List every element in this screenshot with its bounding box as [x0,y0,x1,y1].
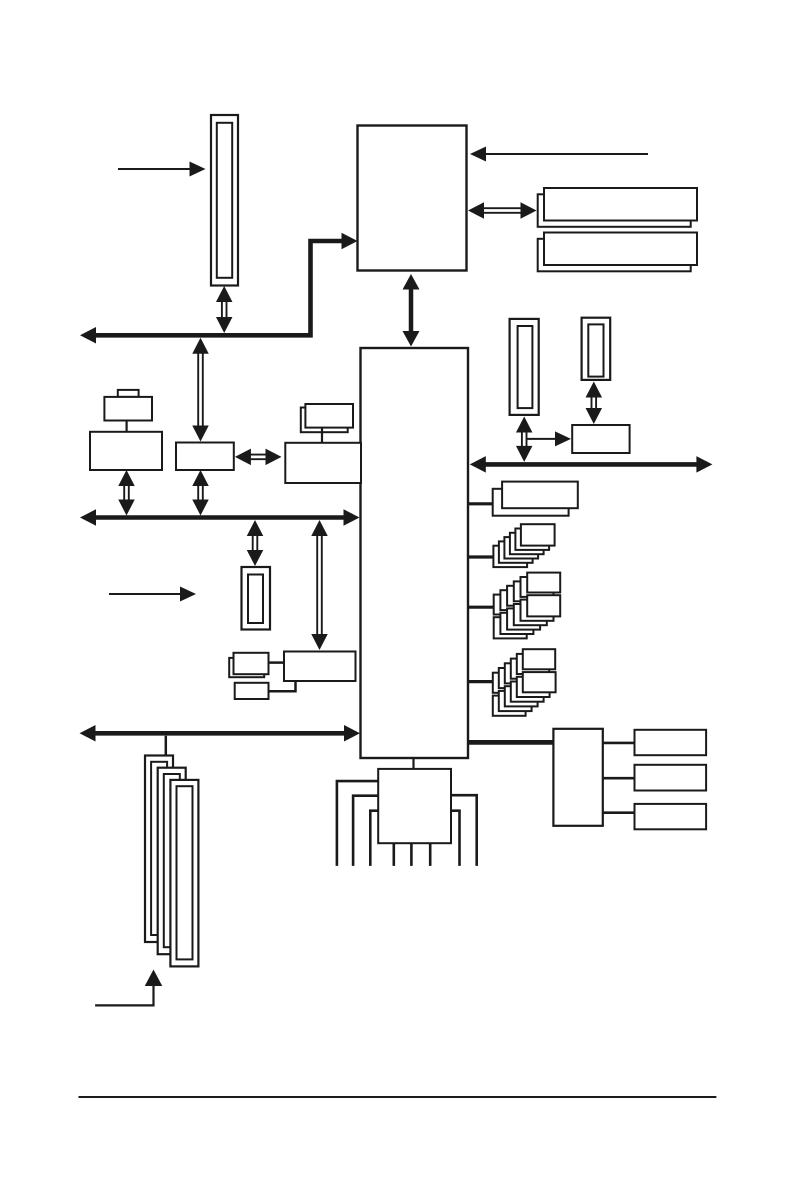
right peripheral bus (from chipset) [470,456,713,473]
wire: chipset to IDE pair [468,502,494,505]
AGP/FSB bus with elbow arrow into CPU [80,233,358,344]
thick wire: chipset to BIOS block [468,740,553,745]
USB port stack 2 (pairs) [493,649,556,716]
open arrow: PCI bus to front panel header [247,520,264,566]
wire: bus to PCI slots [165,736,168,756]
solid arrow: CPU to chipset [403,274,420,347]
clock generator block [90,432,162,470]
PCI slot connector (right) [510,319,539,415]
DDR DIMM socket pair 2 [538,233,697,272]
Super I/O block [284,652,356,682]
open arrow: clock generator to PCI bus [118,470,135,516]
audio jack leg left 3 [370,811,378,866]
port block 3 [635,804,707,829]
open arrow: PCI bus to Super I/O [311,520,328,650]
flash/BIOS middle block [176,443,234,471]
wire: chipset to audio codec [412,758,414,769]
open arrow: AGP slot to AGP bus [216,286,233,333]
PCI bus (left, into chipset) [80,509,360,526]
BIOS block [553,729,602,826]
port block 1 [635,730,707,755]
LAN transformer icon [301,404,353,443]
PCI slot 2 [158,768,186,955]
audio jack leg bottom 1 [392,843,395,866]
audio jack leg left 2 [353,796,378,866]
COM port block [229,653,284,677]
audio jack leg bottom 3 [429,843,432,866]
audio jack leg left 1 [337,781,378,866]
IDE connector pair [493,482,578,516]
audio codec block [378,769,451,843]
arrow: AGP 8X signal into AGP slot [118,162,206,177]
wire: chipset to USB stack 2 [468,680,494,683]
audio jack leg bottom 2 [410,843,413,866]
open arrow: CNR connector to PHY block [586,382,603,425]
open arrow: AGP bus down to flash/BIOS block [192,338,209,442]
PCI slot 3 [170,780,198,967]
open arrow: CPU to DDR DIMMs [468,202,537,219]
audio jack leg right outer [451,795,477,866]
USB port stack 1 (pairs) [494,573,561,639]
clock generator crystal [104,390,152,432]
LAN chip block [285,443,361,483]
arrow: signal into PCI slots [95,970,162,1006]
wire: chipset to device stack 1 [468,555,494,558]
CPU block [358,126,467,271]
wire: BIOS to port block 2 [603,777,635,780]
footer rule [79,1096,717,1098]
chipset block (north/south bridge) [361,348,469,758]
open arrow: right PCI connector to right bus [516,417,533,462]
open arrow: middle block to PCI bus [192,470,209,516]
stacked device group 1 [493,524,554,567]
CNR/AMR connector [582,318,611,380]
port block 2 [635,765,707,791]
DDR DIMM socket pair 1 [538,188,697,227]
arrow: CPU clock input from right [470,147,648,162]
open arrow: middle block to LAN chip [235,449,282,466]
PHY small block [572,425,629,453]
lower PCI bus (into chipset) [80,725,361,742]
AGP slot connector [211,115,238,286]
arrow: signal into front panel header [109,587,196,602]
front panel header connector [242,567,271,630]
wire: BIOS to port block 1 [603,742,635,745]
LPT port block [235,681,296,699]
PCI slot 1 [145,756,173,943]
wire: BIOS to port block 3 [603,811,635,814]
audio jack leg right inner [451,811,460,866]
wire: chipset to USB stack 1 [468,606,495,609]
thin arrow: into PHY block [526,431,571,446]
